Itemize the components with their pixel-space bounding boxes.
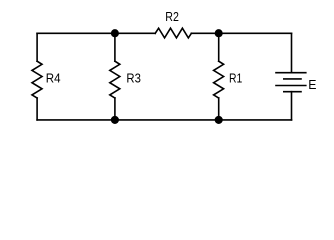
wire bottom-right corner to node D <box>219 119 292 121</box>
resistor R2 (horizontal zigzag) <box>155 28 191 38</box>
wire top-left corner down to R4 top <box>36 33 38 61</box>
resistor R3 (vertical zigzag) <box>110 61 120 98</box>
wire node D to node C <box>115 119 219 121</box>
wire R3 bottom to node C <box>114 98 116 120</box>
svg-text:R2: R2 <box>165 9 179 24</box>
resistor R1 (vertical zigzag) <box>214 61 224 98</box>
svg-text:R3: R3 <box>126 71 140 86</box>
node A (junction dot, top of R3 branch) <box>111 29 119 37</box>
wire R1 bottom to node D <box>218 98 220 120</box>
node D (junction dot, bottom of R1 branch) <box>215 116 223 124</box>
node B (junction dot, top of R1 branch) <box>215 29 223 37</box>
wire node B to top-right corner <box>219 32 292 34</box>
wire top-left segment (left corner to node A) <box>37 32 115 34</box>
wire node A down to R3 top <box>114 33 116 61</box>
wire R2 right terminal to node B <box>191 32 218 34</box>
svg-text:E: E <box>308 77 317 92</box>
wire node C to bottom-left corner <box>37 119 115 121</box>
wire battery bottom to bottom-right corner <box>291 92 293 120</box>
wire node B down to R1 top <box>218 33 220 61</box>
svg-text:R1: R1 <box>229 71 242 86</box>
wire right branch down to battery top <box>291 33 293 72</box>
svg-text:R4: R4 <box>46 71 61 86</box>
battery E (voltage source, 2-cell symbol) <box>276 73 306 92</box>
wire node A to R2 left terminal <box>115 32 155 34</box>
wire R4 bottom to bottom-left corner <box>36 98 38 120</box>
resistor R4 (vertical zigzag) <box>32 61 42 98</box>
node C (junction dot, bottom of R3 branch) <box>111 116 119 124</box>
